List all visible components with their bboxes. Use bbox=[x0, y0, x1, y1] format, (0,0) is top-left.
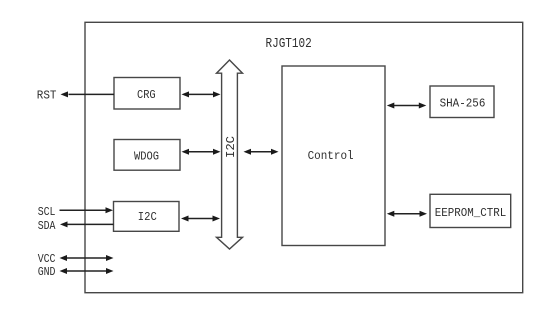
svg-text:VCC: VCC bbox=[38, 252, 56, 266]
chip outline RJGT102 bbox=[85, 22, 523, 292]
wire CRG to bus bbox=[182, 91, 221, 97]
wire SCL to I2C bbox=[60, 207, 114, 213]
svg-text:RST: RST bbox=[37, 89, 57, 103]
svg-text:I2C: I2C bbox=[138, 210, 157, 224]
svg-text:SCL: SCL bbox=[38, 205, 56, 219]
wire RST to CRG bbox=[61, 91, 115, 97]
wire Control to EEPROM_CTRL bbox=[387, 211, 427, 217]
svg-text:I2C: I2C bbox=[224, 136, 238, 158]
wire VCC bbox=[60, 255, 114, 261]
wire bus to Control bbox=[244, 149, 279, 155]
svg-text:RJGT102: RJGT102 bbox=[266, 36, 312, 52]
svg-text:SHA-256: SHA-256 bbox=[440, 96, 486, 110]
wire GND bbox=[60, 268, 114, 274]
wire WDOG to bus bbox=[182, 149, 221, 155]
svg-text:SDA: SDA bbox=[38, 219, 56, 233]
block Control bbox=[282, 66, 385, 246]
block EEPROM_CTRL bbox=[430, 194, 511, 227]
svg-text:CRG: CRG bbox=[137, 88, 156, 102]
block I2C bbox=[114, 202, 180, 232]
svg-text:GND: GND bbox=[38, 265, 56, 279]
block CRG bbox=[114, 78, 180, 110]
svg-text:WDOG: WDOG bbox=[134, 149, 159, 163]
wire Control to SHA-256 bbox=[387, 103, 427, 109]
svg-text:EEPROM_CTRL: EEPROM_CTRL bbox=[435, 206, 506, 220]
block WDOG bbox=[114, 140, 180, 171]
wire SDA from I2C bbox=[60, 221, 114, 227]
wire I2C to bus bbox=[181, 216, 220, 222]
block SHA-256 bbox=[430, 86, 494, 118]
svg-text:Control: Control bbox=[308, 149, 354, 163]
I2C bus block arrow bbox=[217, 60, 243, 249]
